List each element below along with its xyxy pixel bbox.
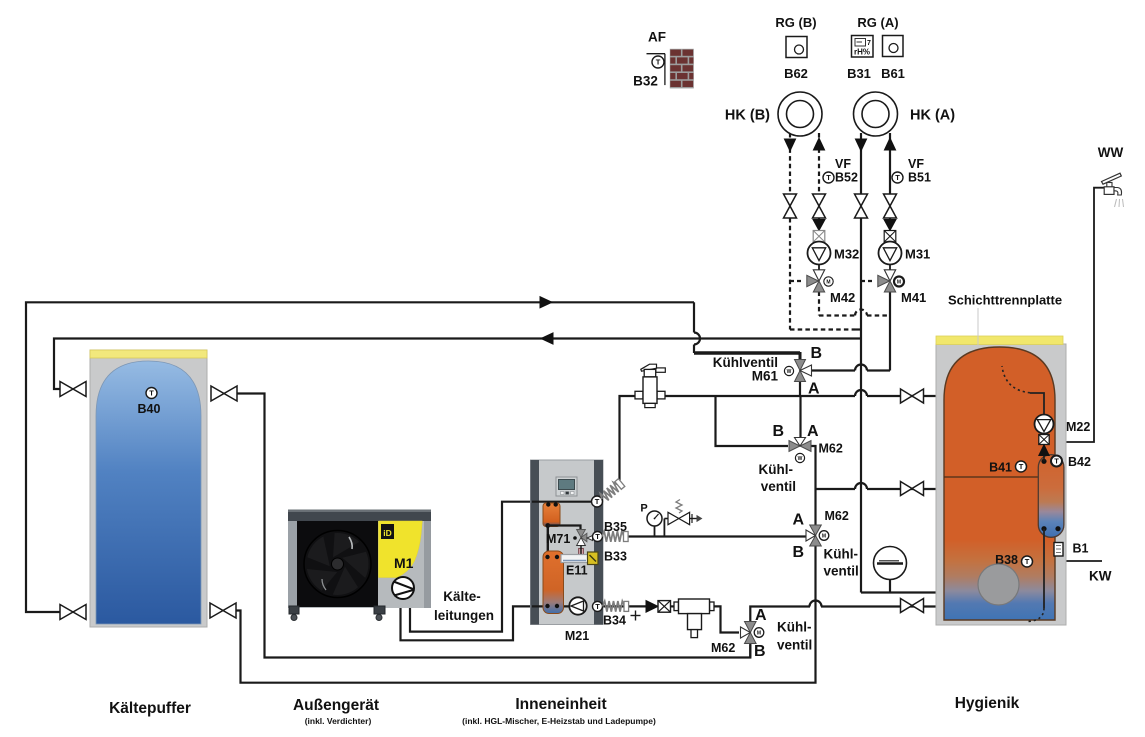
cabinet left pillar <box>531 460 540 625</box>
sensor B41 <box>1016 461 1027 472</box>
shut-off valve Kaeltepuffer top-left <box>60 382 86 397</box>
check valve after pump <box>646 601 658 613</box>
wire: flow sensor stem row into tank <box>889 580 891 593</box>
wire: supply line Kaeltepuffer bottom to M61 B (top long line) <box>26 302 694 612</box>
svg-text:KW: KW <box>1089 569 1112 584</box>
svg-text:M61: M61 <box>752 369 779 384</box>
Kaeltepuffer yellow top band <box>90 350 207 358</box>
svg-text:B41: B41 <box>989 461 1012 475</box>
svg-text:(inkl. Verdichter): (inkl. Verdichter) <box>305 716 372 726</box>
svg-text:iD: iD <box>383 528 392 538</box>
svg-text:M: M <box>822 534 826 540</box>
flow arrows under pumps <box>784 139 795 151</box>
svg-text:M62: M62 <box>711 641 735 655</box>
Inneneinheit cabinet <box>531 460 604 625</box>
svg-text:ventil: ventil <box>761 479 796 494</box>
circulation pump M22 <box>1035 415 1054 434</box>
pump M31 <box>879 242 902 265</box>
Hygienik water body <box>944 347 1055 620</box>
svg-text:A: A <box>755 607 767 624</box>
svg-text:T: T <box>595 532 600 541</box>
svg-text:T: T <box>895 173 900 182</box>
svg-text:M: M <box>897 280 901 286</box>
svg-text:Kälte-: Kälte- <box>443 589 481 604</box>
sensor B38 <box>1022 556 1033 567</box>
heat pump left side strip <box>288 521 297 608</box>
svg-text:M32: M32 <box>834 247 859 262</box>
svg-text:B51: B51 <box>908 171 931 185</box>
wire: M62-3 B port stub <box>749 644 751 658</box>
sensor VF B52 <box>823 172 834 183</box>
svg-text:W: W <box>787 369 792 375</box>
svg-text:B31: B31 <box>847 66 871 81</box>
wire: M41 to M61 right port (hop over return) <box>867 369 890 371</box>
svg-text:B34: B34 <box>603 614 626 628</box>
wire: refrigerant pipe 1 (Aussengeraet to Inneneinheit top) <box>410 502 560 632</box>
svg-text:A: A <box>792 512 804 529</box>
svg-text:M41: M41 <box>901 290 926 305</box>
Kaeltepuffer blue water body <box>96 361 201 624</box>
svg-text:B61: B61 <box>881 66 905 81</box>
flow sensor (sight glass) <box>874 547 907 580</box>
heating circuit pump HK (A) <box>854 92 898 136</box>
svg-text:M71: M71 <box>546 532 570 546</box>
separation plate line <box>944 476 1038 478</box>
svg-text:B52: B52 <box>835 171 858 185</box>
heat pump right edge strip <box>424 521 431 608</box>
svg-text:T: T <box>1025 557 1030 566</box>
svg-text:B62: B62 <box>784 66 808 81</box>
svg-text:E11: E11 <box>566 564 588 578</box>
shut-off valves at Hygienik <box>901 389 924 403</box>
pump M32 <box>808 242 831 265</box>
svg-text:WW: WW <box>1098 145 1124 160</box>
sensor B42 <box>1051 456 1062 467</box>
svg-text:M1: M1 <box>394 555 414 571</box>
wire: Kaeltepuffer top-right valve to M62-3 port B <box>238 394 751 658</box>
wire: row segments inside cabinet <box>532 501 592 503</box>
svg-text:Hygienik: Hygienik <box>955 695 1020 712</box>
svg-text:T: T <box>826 173 831 182</box>
iD logo <box>381 524 394 539</box>
heat pump fan section <box>297 521 378 607</box>
heating circuit pump HK (B) <box>778 92 822 136</box>
svg-text:rH%: rH% <box>854 48 870 57</box>
heat exchanger vessel (top) <box>543 503 560 527</box>
wire: HK(B) supply drop line (dashed) <box>818 133 820 194</box>
svg-text:7: 7 <box>867 40 871 47</box>
svg-text:P: P <box>640 503 647 515</box>
air vent (micro-bubble separator) <box>635 391 643 399</box>
wire: pump row inside cabinet to check valve <box>570 605 648 607</box>
svg-text:M31: M31 <box>905 247 930 262</box>
wire: M41 inlet (dashed) <box>861 280 874 282</box>
svg-text:B33: B33 <box>604 550 627 564</box>
B33 sensor pocket (yellow) <box>588 552 599 565</box>
M71 lower stem / safety insert <box>579 549 584 559</box>
controller display <box>556 477 577 496</box>
heat pump dark top band <box>288 511 431 521</box>
svg-text:B: B <box>792 544 804 561</box>
svg-text:B: B <box>772 423 784 440</box>
svg-text:T: T <box>656 58 661 67</box>
Schichttrennplatte pointer <box>977 308 979 462</box>
fill/drain mark <box>635 611 637 621</box>
flow arrow on top supply line <box>540 297 552 308</box>
svg-text:Kühl-: Kühl- <box>777 620 812 635</box>
svg-text:T: T <box>595 602 600 611</box>
Kuehlventil M61 (3-way valve) <box>795 360 806 371</box>
internal DHW pipe (capsule) <box>1038 455 1064 538</box>
svg-text:HK (B): HK (B) <box>725 108 770 124</box>
svg-text:VF: VF <box>835 157 851 171</box>
svg-text:Kühl-: Kühl- <box>824 547 859 562</box>
shut-off valve Kaeltepuffer bottom-left <box>60 605 86 620</box>
Hygienik tank shell <box>936 344 1066 625</box>
compressor symbol M1 <box>392 577 414 599</box>
wire: top sensor row inside cabinet <box>560 501 592 503</box>
svg-text:ventil: ventil <box>824 564 859 579</box>
svg-text:B: B <box>811 345 823 362</box>
Kuehlventil M62-3 (3-way valve) <box>745 622 757 633</box>
shut-off valves on circuit lines <box>784 194 797 218</box>
spherical element in tank <box>978 564 1019 605</box>
wire: HK(B) return drop line (dashed) <box>789 133 791 194</box>
shut-off valve Kaeltepuffer top-right <box>211 386 237 401</box>
mixing valve M42 <box>818 265 820 271</box>
pressure gauge P <box>654 526 656 537</box>
wire: HK(A) return main vertical <box>860 133 862 194</box>
svg-text:A: A <box>808 381 820 398</box>
check valve HK(B) supply <box>813 220 825 231</box>
svg-text:(inkl. HGL-Mischer, E-Heizstab: (inkl. HGL-Mischer, E-Heizstab und Ladep… <box>462 716 656 726</box>
flow arrow on return line <box>541 333 553 344</box>
check valve under M22 <box>1039 435 1049 445</box>
Aussengeraet heat pump body <box>288 512 431 608</box>
dashed top internal pipe <box>1002 366 1030 393</box>
svg-text:ventil: ventil <box>777 638 812 653</box>
wire: M42 inlet (dashed) <box>790 280 804 282</box>
svg-text:T: T <box>595 497 600 506</box>
sensor VF B51 <box>892 172 903 183</box>
E11 electric heater vessel <box>543 551 564 614</box>
svg-text:A: A <box>807 423 819 440</box>
svg-text:M: M <box>757 631 761 637</box>
wire: M61 A down to row and M62-1 top <box>799 382 801 396</box>
svg-text:B1: B1 <box>1073 542 1089 556</box>
svg-text:RG (B): RG (B) <box>775 15 816 30</box>
wire: row A air-vent to Hygienik top connection <box>620 396 856 482</box>
sensor B34 with coil <box>593 601 603 611</box>
sensor T top (capillary to air vent line) <box>592 496 603 507</box>
safety valve <box>663 519 665 537</box>
Hygienik yellow top band <box>936 336 1063 345</box>
wire: down to M62-2 top port <box>814 489 816 525</box>
cabinet right pillar <box>594 460 603 625</box>
capillary spring (diagonal) <box>599 478 625 503</box>
svg-text:M62: M62 <box>825 509 849 523</box>
svg-text:RG (A): RG (A) <box>857 15 898 30</box>
wire: M62-1 right port down to middle row <box>811 446 816 489</box>
wire: WW tapping line <box>1057 188 1105 454</box>
shut-off valve Kaeltepuffer bottom-right <box>210 603 236 618</box>
Kuehlventil M62-1 (3-way valve, horizontal) <box>789 441 800 452</box>
wire: KW cold water line <box>1057 529 1059 542</box>
brick wall <box>670 49 694 89</box>
wire: middle row to Hygienik (hop over return) <box>816 488 856 490</box>
svg-text:leitungen: leitungen <box>434 608 494 623</box>
flow switch B1 <box>1054 543 1063 557</box>
wire: Kaeltepuffer bottom-right valve to M62-2 port B <box>236 546 816 683</box>
internal pipe to bottom with dotted bend <box>1043 529 1045 608</box>
arrow T to M71 <box>587 536 593 541</box>
wire: thick line into Kuehlventil M61 port B <box>694 351 800 354</box>
vessel interconnect pipes <box>547 525 549 557</box>
check valve HK(A) supply <box>884 220 896 231</box>
svg-text:M62: M62 <box>819 442 843 456</box>
svg-text:VF: VF <box>908 157 924 171</box>
svg-text:M22: M22 <box>1066 420 1090 434</box>
E11 heating rod <box>561 555 588 563</box>
Kuehlventil M62-2 (3-way valve) <box>810 525 822 536</box>
svg-text:W: W <box>798 456 803 462</box>
sensor B35 with coil <box>593 532 603 542</box>
svg-text:M42: M42 <box>830 290 855 305</box>
svg-text:M: M <box>826 280 830 286</box>
temperature sensor B40 <box>146 388 157 399</box>
svg-text:B32: B32 <box>633 74 658 89</box>
mixing valve M71 <box>577 530 586 538</box>
heat pump yellow panel <box>379 521 423 578</box>
svg-text:B35: B35 <box>604 520 627 534</box>
wire: HK(A) supply vertical through M31/M41 <box>889 133 891 194</box>
wire: B35 row from indoor unit to M62-2 left port <box>624 535 806 537</box>
svg-text:T: T <box>1054 457 1059 466</box>
svg-text:AF: AF <box>648 30 666 45</box>
svg-text:Außengerät: Außengerät <box>293 697 379 714</box>
svg-text:Inneneinheit: Inneneinheit <box>515 696 606 713</box>
svg-text:M21: M21 <box>565 629 589 643</box>
svg-text:B42: B42 <box>1068 455 1091 469</box>
wire: M62-3 A port to Hygienik bottom row <box>750 607 810 622</box>
wire: return line to Kaeltepuffer top (second long line) <box>54 339 861 390</box>
svg-text:B40: B40 <box>138 402 161 416</box>
svg-text:T: T <box>1019 462 1024 471</box>
strainer / expansion connection <box>674 602 679 611</box>
svg-text:Kältepuffer: Kältepuffer <box>109 700 191 717</box>
mixing valve M41 <box>889 265 891 271</box>
svg-text:B: B <box>754 643 766 660</box>
svg-text:T: T <box>149 389 154 398</box>
wire: strainer to M62-3 left port <box>713 606 739 632</box>
svg-text:Kühl-: Kühl- <box>759 462 794 477</box>
heat pump fan <box>304 531 371 598</box>
svg-text:Schichttrennplatte: Schichttrennplatte <box>948 293 1062 308</box>
Kaeltepuffer buffer tank shell <box>90 350 207 627</box>
wire: check valve to strainer <box>670 605 677 607</box>
heat pump feet <box>289 606 299 614</box>
wire: refrigerant pipe 2 (Aussengeraet to Inneneinheit pump row) <box>401 606 571 640</box>
svg-text:HK (A): HK (A) <box>910 108 955 124</box>
junction: dashed return joins HK(A) return <box>855 328 861 330</box>
pump M21 <box>569 597 586 614</box>
wire: branch row-A down to M62-1 left port <box>716 396 789 446</box>
